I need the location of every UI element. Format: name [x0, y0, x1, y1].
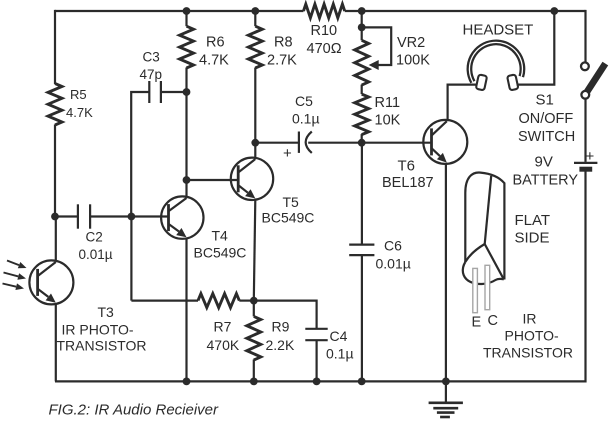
resistor R8 [248, 26, 297, 68]
transistor T6 [382, 120, 467, 191]
node top rail / VR2 [358, 7, 366, 15]
wire R7 right lead [239, 300, 254, 302]
phototransistor T3 [3, 260, 147, 353]
wire top rail left segment [55, 10, 304, 12]
wire headset right to top rail [517, 11, 555, 85]
svg-text:47p: 47p [140, 67, 163, 82]
svg-text:100K: 100K [396, 53, 430, 69]
transistor T5 [231, 158, 315, 226]
svg-text:BATTERY: BATTERY [513, 172, 579, 188]
node C2 right / T4 base / R7 drop [127, 213, 135, 221]
wire R8 bottom to C5 node [254, 68, 256, 143]
svg-text:TRANSISTOR: TRANSISTOR [483, 345, 573, 361]
wire T4 collector lead [185, 180, 187, 197]
wire C3 right lead [161, 91, 187, 93]
svg-text:0.1µ: 0.1µ [326, 346, 354, 362]
svg-text:470K: 470K [207, 337, 240, 353]
wire VR2 to R11 [361, 85, 363, 95]
transistor T4 [161, 196, 246, 260]
wire C4 bottom lead [316, 340, 318, 381]
wire R9 top lead [253, 301, 255, 317]
wire C5 left lead [255, 142, 299, 144]
svg-text:R5: R5 [70, 87, 87, 102]
svg-text:4.7K: 4.7K [199, 53, 229, 69]
resistor R10 [304, 4, 345, 57]
capacitor C5 (electrolytic) [283, 93, 320, 162]
node top rail / headset [550, 7, 558, 15]
wire left rail T3 emitter to bottom [55, 304, 57, 382]
svg-text:TRANSISTOR: TRANSISTOR [57, 338, 147, 354]
svg-text:C3: C3 [143, 50, 160, 65]
wire left rail R5 to C2 node [54, 125, 56, 217]
svg-text:FLAT: FLAT [515, 212, 551, 229]
wire C3 node to T4 collector node [185, 92, 187, 180]
svg-text:C4: C4 [330, 328, 348, 344]
wire C2 left lead [55, 215, 78, 217]
wire T5 base lead [187, 179, 239, 181]
svg-text:R11: R11 [375, 95, 401, 111]
node R6 bottom / C3 [183, 88, 191, 96]
svg-text:C6: C6 [384, 238, 402, 254]
capacitor C4 [305, 328, 353, 362]
wire C6 top lead [361, 143, 363, 245]
wire C4 top lead [254, 301, 317, 329]
wire R7 left lead [131, 300, 198, 302]
caption [49, 402, 220, 419]
node T4 emitter / ground rail [183, 378, 191, 386]
svg-text:C2: C2 [86, 230, 103, 245]
svg-text:T3: T3 [98, 304, 115, 320]
node VR2 wiper tie [358, 24, 366, 32]
svg-text:R10: R10 [311, 23, 338, 39]
node C6 bottom / ground rail [358, 378, 366, 386]
node T4 collector / T5 base [183, 176, 191, 184]
wire VR2 top lead [361, 11, 363, 40]
svg-text:IR: IR [523, 311, 537, 327]
svg-text:ON/OFF: ON/OFF [519, 111, 574, 127]
wire T6 base lead [362, 142, 432, 144]
svg-text:9V: 9V [535, 153, 553, 170]
svg-text:BC549C: BC549C [262, 210, 315, 226]
wire left rail upper (to R5) [54, 10, 56, 84]
wire R6 top lead [185, 11, 187, 26]
svg-text:E: E [472, 315, 482, 331]
battery 9V [513, 148, 598, 188]
wire R8 top lead [254, 11, 256, 26]
svg-text:R6: R6 [206, 35, 225, 51]
wire R11 bottom lead [361, 134, 363, 143]
wire T6 collector up to headset [448, 85, 478, 120]
svg-text:R9: R9 [272, 319, 290, 335]
resistor R9 [247, 316, 295, 360]
svg-text:R7: R7 [214, 319, 232, 335]
svg-text:4.7K: 4.7K [66, 105, 93, 120]
svg-text:C5: C5 [295, 93, 313, 109]
wire C2 right lead / T4 base [90, 215, 169, 217]
potentiometer VR2 [355, 27, 430, 85]
svg-text:10K: 10K [375, 113, 401, 129]
wire bottom rail [55, 380, 586, 382]
svg-text:T4: T4 [212, 228, 229, 244]
svg-text:BEL187: BEL187 [382, 175, 434, 191]
svg-text:+: + [283, 145, 292, 162]
svg-text:2.2K: 2.2K [266, 337, 295, 353]
wire R6 bottom to C3 node [185, 68, 187, 93]
node top rail / R8 [251, 7, 259, 15]
node C4 bottom / ground rail [313, 378, 321, 386]
svg-text:PHOTO-: PHOTO- [505, 328, 560, 344]
capacitor C6 [349, 238, 411, 272]
wire T4 base node down to R7 [130, 217, 132, 301]
wire C6 bottom lead [361, 255, 363, 381]
wire T5 emitter lead [254, 200, 256, 301]
wire switch to battery [584, 99, 586, 162]
svg-text:0.01µ: 0.01µ [79, 247, 113, 262]
svg-text:2.7K: 2.7K [267, 53, 297, 69]
svg-text:+: + [586, 148, 595, 165]
node R7 / R9 / T5 emitter [250, 297, 258, 305]
wire left rail C2 node to T3 collector [55, 217, 57, 262]
resistor R6 [180, 26, 230, 68]
svg-text:T5: T5 [283, 194, 300, 210]
wire top rail right segment [345, 10, 586, 12]
wire right rail top to switch [584, 10, 586, 62]
wire C3 left lead and drop [131, 92, 149, 217]
node C5 left / T5 collector [251, 139, 259, 147]
capacitor C2 [78, 204, 113, 262]
svg-text:0.01µ: 0.01µ [376, 256, 411, 272]
node C2 left [51, 213, 59, 221]
resistor R5 [48, 84, 93, 126]
switch S1 [518, 62, 608, 145]
svg-text:SWITCH: SWITCH [518, 129, 575, 145]
node top rail / R6 [183, 7, 191, 15]
node T6 emitter / ground rail [442, 378, 450, 386]
wire T5 collector lead [254, 143, 256, 158]
svg-text:0.1µ: 0.1µ [292, 111, 320, 127]
svg-text:VR2: VR2 [397, 35, 425, 51]
svg-text:SIDE: SIDE [515, 230, 550, 247]
svg-text:IR PHOTO-: IR PHOTO- [62, 322, 134, 338]
svg-text:470Ω: 470Ω [307, 41, 342, 57]
headset [463, 22, 534, 91]
IR phototransistor package pictorial [463, 173, 573, 361]
svg-text:S1: S1 [536, 91, 554, 108]
svg-text:HEADSET: HEADSET [463, 22, 534, 39]
wire R9 bottom lead [253, 360, 255, 382]
svg-text:T6: T6 [398, 157, 416, 174]
ground [429, 381, 463, 417]
svg-text:C: C [488, 313, 498, 329]
node C5 right / R11 / C6 / T6 base [358, 139, 366, 147]
wire C5 right lead [308, 142, 362, 144]
wire T4 emitter to bottom [185, 238, 187, 381]
label FLAT SIDE [515, 212, 551, 247]
wire T6 emitter to ground rail [445, 164, 447, 382]
svg-text:BC549C: BC549C [194, 245, 247, 261]
resistor R7 [198, 294, 240, 353]
capacitor C3 [140, 50, 163, 104]
svg-text:FIG.2: IR Audio Recieiver: FIG.2: IR Audio Recieiver [49, 402, 220, 419]
svg-text:R8: R8 [274, 35, 293, 51]
resistor R11 [355, 94, 401, 135]
wire right rail battery to bottom [584, 170, 586, 382]
node R9 bottom / ground rail [250, 378, 258, 386]
